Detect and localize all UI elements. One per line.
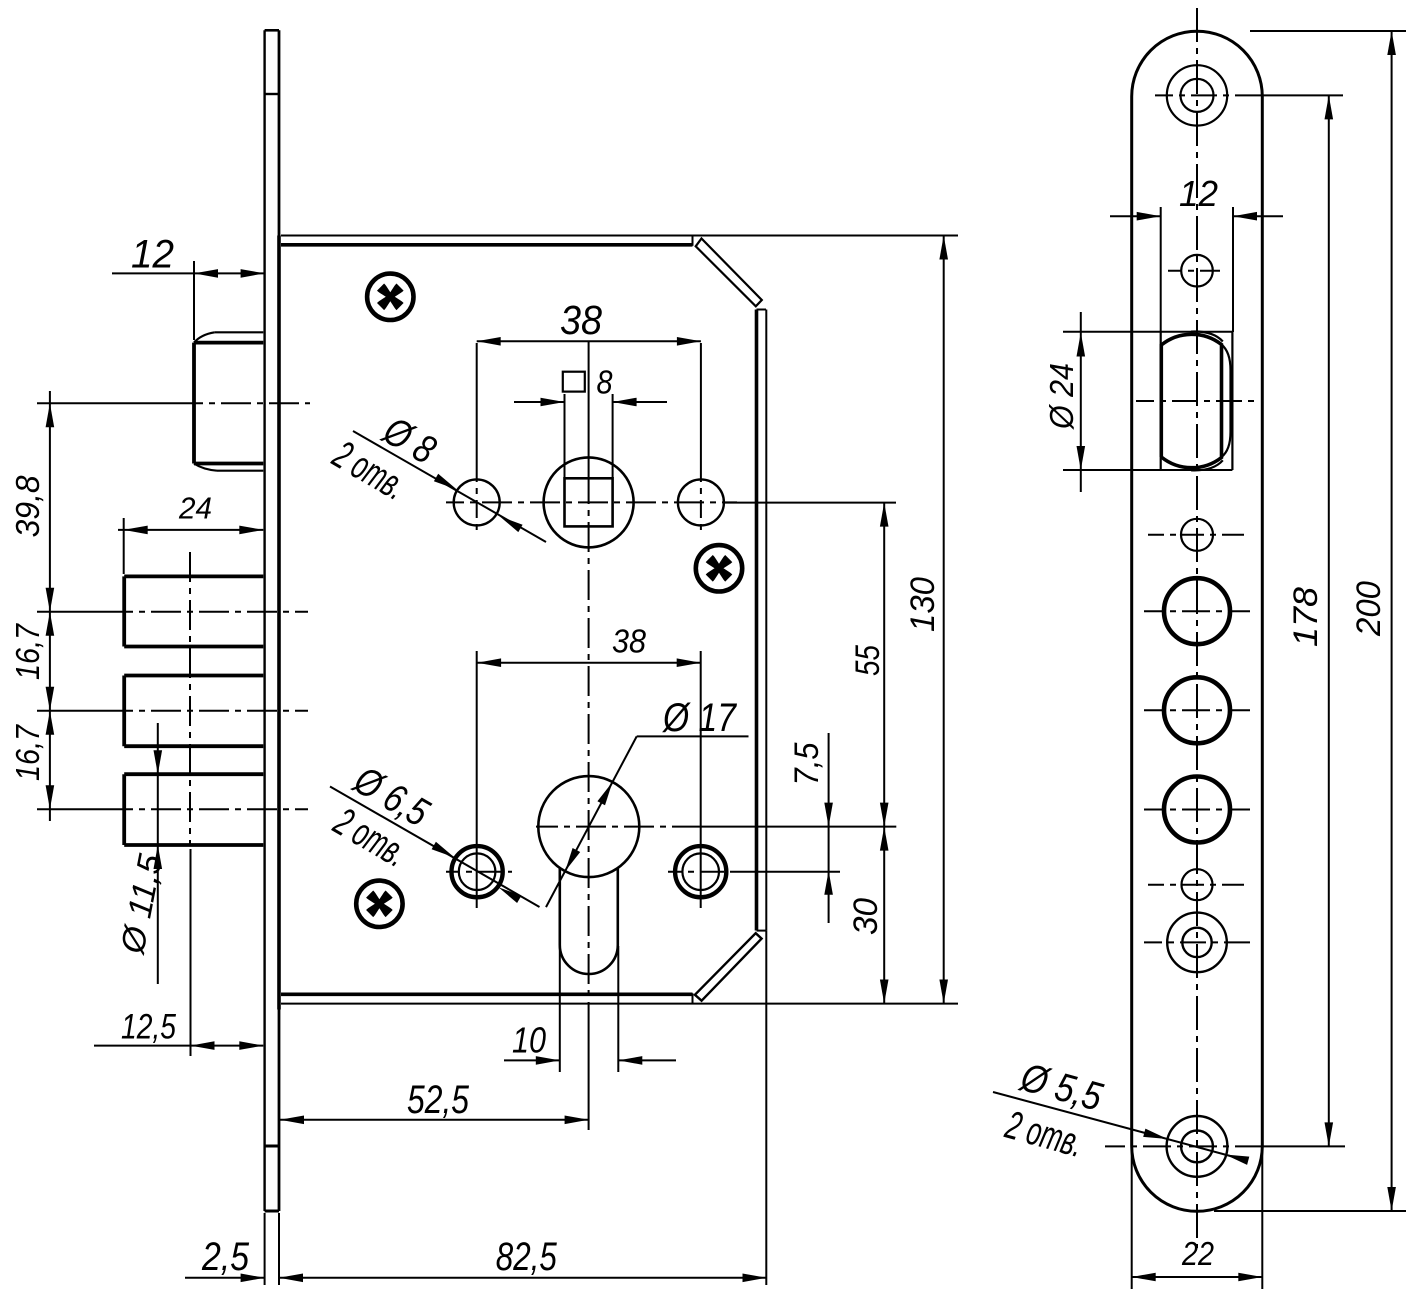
svg-text:2,5: 2,5 xyxy=(201,1235,249,1279)
svg-text:82,5: 82,5 xyxy=(496,1235,558,1279)
svg-text:Ø 24: Ø 24 xyxy=(1044,363,1081,430)
svg-text:55: 55 xyxy=(849,645,887,676)
svg-text:24: 24 xyxy=(178,490,212,525)
svg-text:12: 12 xyxy=(131,233,174,277)
svg-text:12: 12 xyxy=(1179,173,1218,214)
svg-text:38: 38 xyxy=(560,297,602,343)
svg-text:130: 130 xyxy=(904,577,942,632)
svg-text:39,8: 39,8 xyxy=(10,475,47,537)
svg-text:7,5: 7,5 xyxy=(788,742,826,785)
svg-text:22: 22 xyxy=(1181,1235,1214,1272)
svg-text:16,7: 16,7 xyxy=(10,724,47,781)
svg-text:38: 38 xyxy=(612,623,647,660)
svg-text:8: 8 xyxy=(597,364,614,401)
svg-text:52,5: 52,5 xyxy=(407,1078,470,1122)
svg-text:200: 200 xyxy=(1350,581,1388,637)
svg-text:Ø 17: Ø 17 xyxy=(661,696,737,740)
svg-text:30: 30 xyxy=(847,898,885,935)
svg-text:12,5: 12,5 xyxy=(121,1008,176,1047)
svg-text:10: 10 xyxy=(512,1020,546,1061)
svg-text:178: 178 xyxy=(1287,587,1325,647)
svg-text:16,7: 16,7 xyxy=(10,623,47,680)
